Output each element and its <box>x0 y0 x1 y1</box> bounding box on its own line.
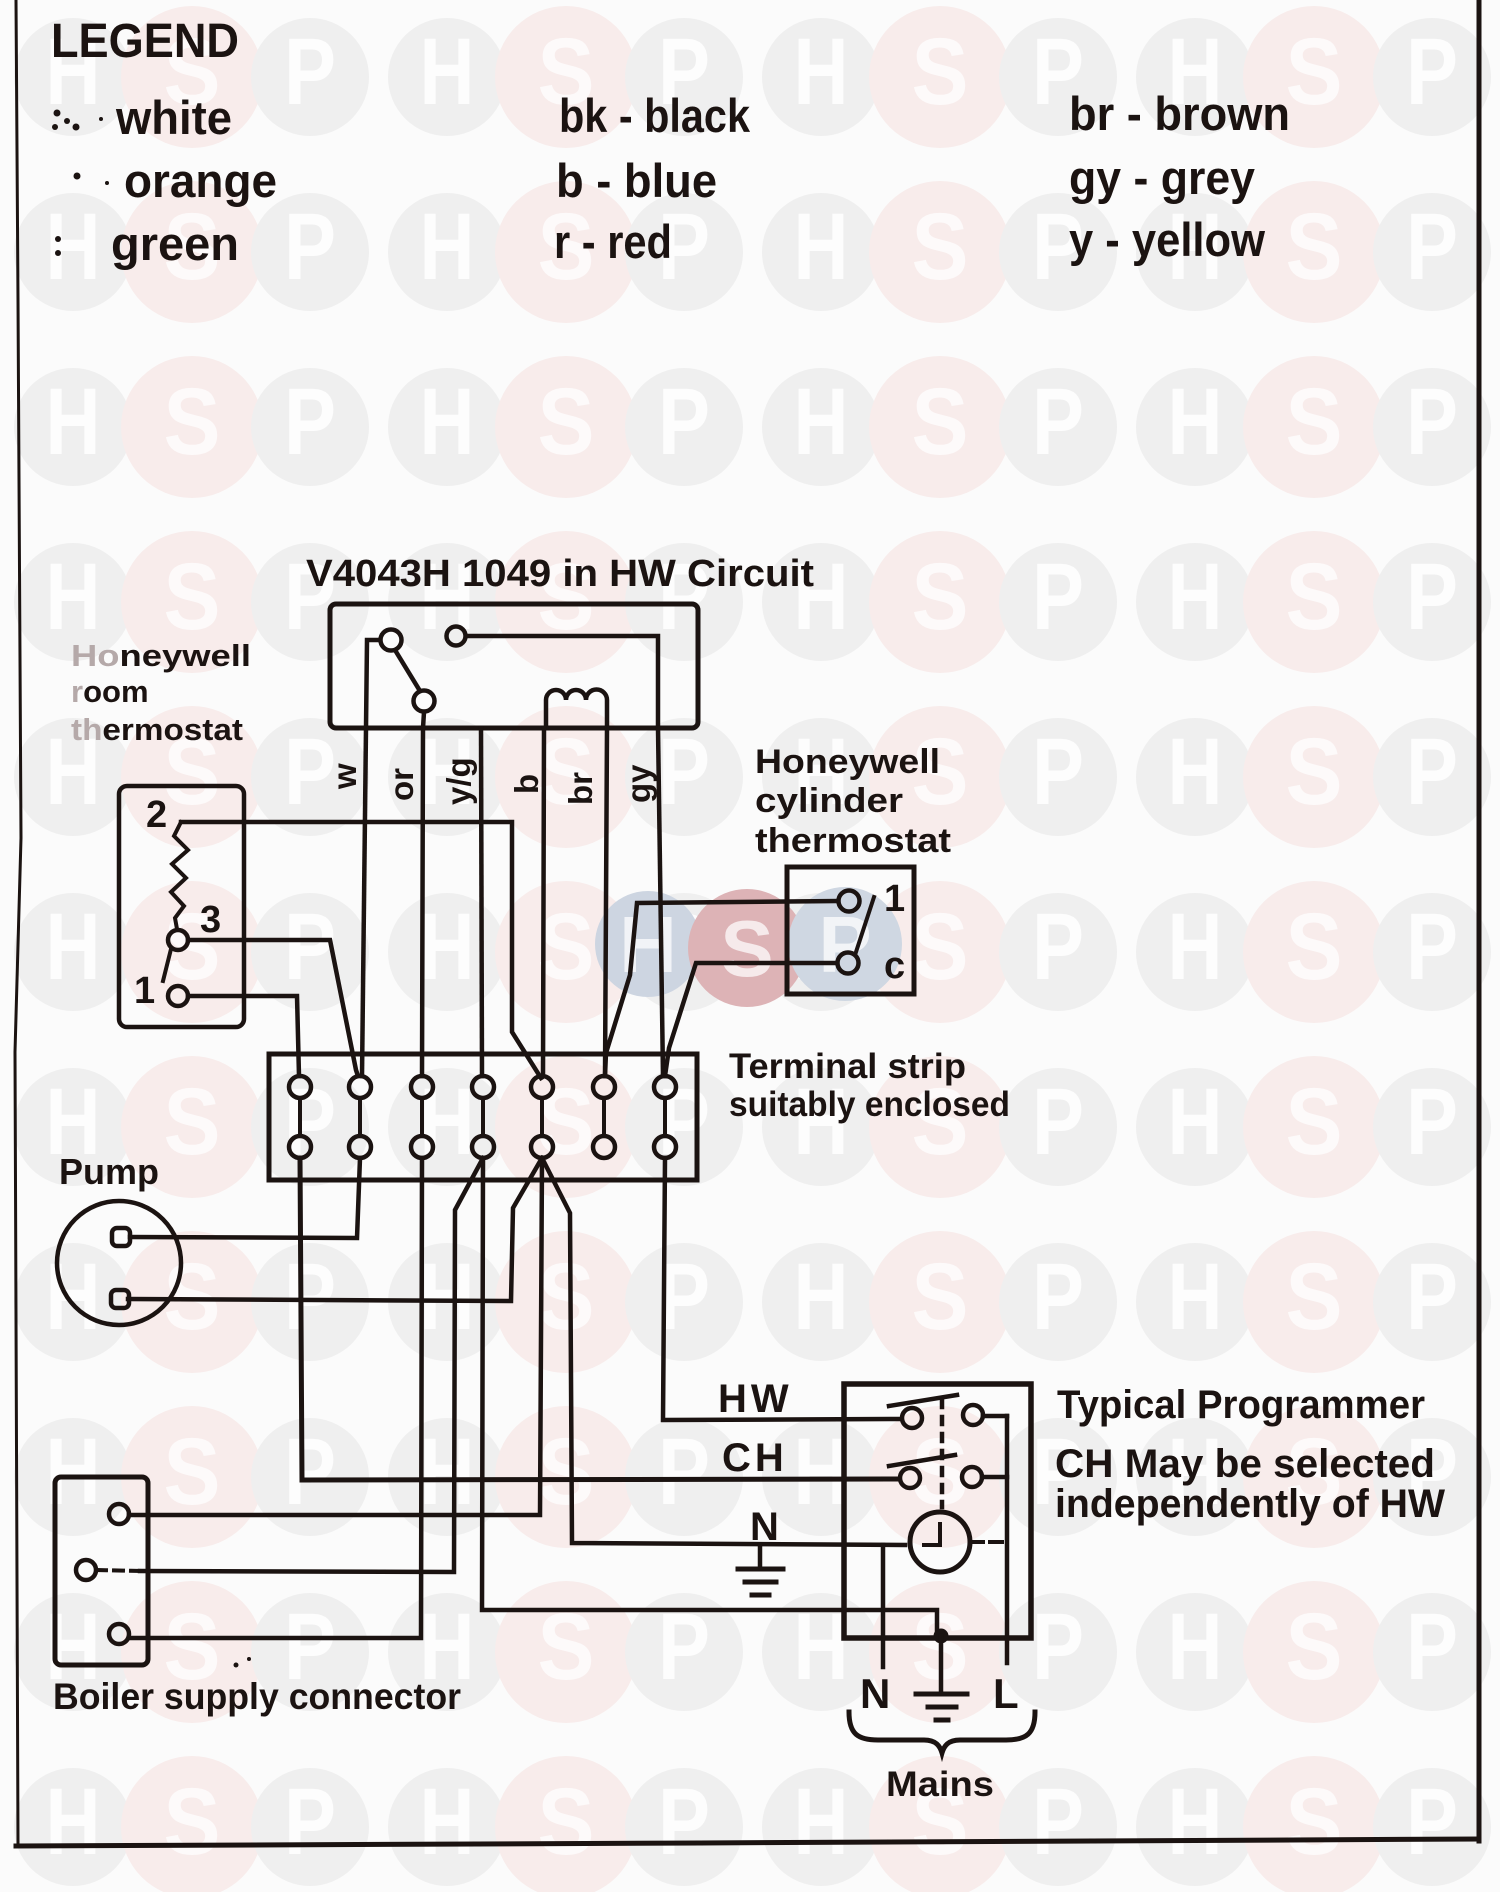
svg-text:P: P <box>1406 19 1458 125</box>
svg-text:S: S <box>1286 1769 1343 1875</box>
svg-text:independently of HW: independently of HW <box>1055 1482 1445 1526</box>
central colored HSP logo watermark <box>595 887 902 1007</box>
svg-text:H: H <box>1168 1594 1223 1700</box>
svg-text:P: P <box>1032 1594 1084 1700</box>
svg-text:H: H <box>420 1244 475 1350</box>
mains brace <box>849 1712 1035 1753</box>
svg-text:P: P <box>658 1769 710 1875</box>
svg-text:P: P <box>1406 1244 1458 1350</box>
svg-text:1: 1 <box>134 970 155 1012</box>
terminal 4 top <box>472 1076 494 1098</box>
svg-text:P: P <box>284 1419 336 1525</box>
svg-text:H: H <box>794 369 849 475</box>
svg-text:2: 2 <box>146 794 167 836</box>
room stat switch arm <box>163 949 171 981</box>
terminal strip box <box>269 1054 697 1180</box>
svg-text:H: H <box>794 19 849 125</box>
svg-text:white: white <box>115 91 232 144</box>
terminal 3 link <box>420 1098 424 1136</box>
svg-text:S: S <box>538 894 595 1000</box>
svg-text:H: H <box>1168 1244 1223 1350</box>
svg-text:Honeywell: Honeywell <box>755 743 940 781</box>
wire terminal 3 to boiler bottom <box>130 1158 422 1638</box>
svg-text:P: P <box>284 19 336 125</box>
wire aux terminal to gy <box>466 636 658 728</box>
svg-text:S: S <box>538 369 595 475</box>
svg-text:P: P <box>1406 1594 1458 1700</box>
svg-text:H: H <box>420 19 475 125</box>
svg-text:CH May be selected: CH May be selected <box>1055 1442 1435 1486</box>
wire terminal 5 to boiler top <box>129 1158 542 1515</box>
pump terminal lower <box>111 1290 129 1308</box>
clock hands <box>924 1524 940 1545</box>
wire pivot to w <box>366 640 380 728</box>
svg-text:Mains: Mains <box>886 1765 994 1804</box>
wire room stat 1 to terminal strip 1 <box>188 996 299 1076</box>
svg-text:Terminal strip: Terminal strip <box>729 1047 966 1086</box>
svg-text:P: P <box>1032 1069 1084 1175</box>
svg-text:b: b <box>508 774 545 794</box>
terminal 3 top <box>411 1076 433 1098</box>
page border left <box>15 0 21 1844</box>
svg-text:r - red: r - red <box>554 215 672 268</box>
svg-text:green: green <box>111 217 239 270</box>
terminal 5 top <box>531 1076 553 1098</box>
svg-text:P: P <box>1406 1769 1458 1875</box>
svg-text:P: P <box>1406 1069 1458 1175</box>
svg-text:LEGEND: LEGEND <box>51 15 239 68</box>
svg-text:H: H <box>794 1244 849 1350</box>
valve switch lever <box>395 650 420 691</box>
svg-text:y - yellow: y - yellow <box>1069 213 1265 266</box>
cylinder thermostat box <box>787 867 914 994</box>
room thermostat box <box>119 786 244 1027</box>
pump body <box>57 1201 181 1325</box>
terminal 1 bottom <box>289 1136 311 1158</box>
svg-text:S: S <box>720 904 773 993</box>
svg-text:P: P <box>1406 369 1458 475</box>
terminal 1 link <box>298 1098 302 1136</box>
svg-text:P: P <box>1032 1769 1084 1875</box>
svg-text:Boiler supply connector: Boiler supply connector <box>53 1676 461 1717</box>
svg-text:S: S <box>912 19 969 125</box>
cyl stat terminal C <box>838 953 859 974</box>
wire lever to or <box>423 712 424 728</box>
svg-text:V4043H 1049 in HW Circuit: V4043H 1049 in HW Circuit <box>306 553 814 595</box>
svg-text:Honeywell: Honeywell <box>71 638 251 673</box>
svg-text:CH: CH <box>722 1436 788 1480</box>
L bus vertical <box>1005 1416 1010 1638</box>
svg-text:thermostat: thermostat <box>755 822 951 860</box>
svg-text:gy - grey: gy - grey <box>1069 151 1255 204</box>
CH switch right contact <box>962 1467 982 1487</box>
svg-text:H: H <box>46 1769 101 1875</box>
page border right <box>1477 0 1482 1841</box>
svg-text:N: N <box>750 1505 779 1549</box>
terminal 6 top <box>593 1076 615 1098</box>
svg-text:P: P <box>658 369 710 475</box>
svg-text:thermostat: thermostat <box>71 712 243 747</box>
svg-text:S: S <box>1286 1244 1343 1350</box>
valve switch pivot terminal <box>381 630 402 651</box>
terminal 1 top <box>289 1076 311 1098</box>
terminal 2 top <box>349 1076 371 1098</box>
terminal 2 link <box>358 1098 362 1136</box>
valve motor coil <box>546 690 607 729</box>
svg-text:H: H <box>46 1244 101 1350</box>
svg-text:N: N <box>860 1670 890 1717</box>
svg-text:H: H <box>46 894 101 1000</box>
room stat terminal 3 <box>168 930 188 950</box>
HW switch left contact <box>902 1408 922 1428</box>
wire gy drop <box>658 728 663 1076</box>
CH switch lever <box>889 1455 955 1466</box>
programmer clock <box>910 1512 970 1572</box>
svg-text:1: 1 <box>884 878 905 920</box>
terminal 4 link <box>481 1098 485 1136</box>
svg-text:H: H <box>1168 1769 1223 1875</box>
svg-text:S: S <box>164 544 221 650</box>
mains earth symbol <box>916 1694 967 1720</box>
svg-text:3: 3 <box>200 899 221 941</box>
speck 2 <box>247 1657 251 1661</box>
svg-text:br - brown: br - brown <box>1069 87 1290 140</box>
cyl stat terminal 1 <box>839 891 860 912</box>
speck 1 <box>234 1663 239 1668</box>
svg-text:S: S <box>1286 369 1343 475</box>
svg-text:S: S <box>1286 894 1343 1000</box>
wire cyl stat C to terminal strip 7 <box>665 963 837 1076</box>
room stat resistor (accelerator) <box>171 822 188 929</box>
wire room stat 2 to terminal strip 5 <box>181 822 541 1078</box>
wire terminal 2 to pump upper <box>130 1158 360 1238</box>
svg-text:y/g: y/g <box>440 757 477 805</box>
CH switch left contact <box>900 1468 920 1488</box>
junction dot mains earth <box>934 1629 949 1644</box>
svg-text:H: H <box>420 194 475 300</box>
wire w drop <box>362 728 366 1076</box>
svg-text:gy: gy <box>620 764 657 803</box>
svg-text:H: H <box>1168 369 1223 475</box>
programmer box <box>844 1384 1031 1638</box>
svg-text:P: P <box>1032 1244 1084 1350</box>
svg-text:P: P <box>1032 719 1084 825</box>
room stat terminal 1 <box>168 986 188 1006</box>
wire HW right to L bus <box>983 1414 1007 1419</box>
svg-text:P: P <box>284 1244 336 1350</box>
svg-text:P: P <box>1406 194 1458 300</box>
svg-text:room: room <box>71 674 149 709</box>
svg-text:w: w <box>326 763 363 790</box>
svg-text:H: H <box>420 894 475 1000</box>
mains N riser <box>881 1545 886 1667</box>
terminal 7 link <box>663 1098 667 1136</box>
legend or dots <box>74 173 110 186</box>
svg-text:H: H <box>1168 719 1223 825</box>
boiler supply connector box <box>55 1477 148 1665</box>
svg-text:S: S <box>912 894 969 1000</box>
svg-text:H: H <box>420 1769 475 1875</box>
svg-text:c: c <box>884 945 905 987</box>
terminal 7 top <box>654 1076 676 1098</box>
boiler terminal top <box>109 1504 129 1524</box>
terminal 5 link <box>540 1098 544 1136</box>
svg-text:H: H <box>1168 894 1223 1000</box>
wire CH right to L bus <box>982 1475 1007 1480</box>
valve lever end terminal <box>414 691 435 712</box>
svg-text:H: H <box>420 1419 475 1525</box>
wire terminal 1 to programmer CH <box>300 1158 899 1480</box>
svg-text:H: H <box>46 194 101 300</box>
terminal 5 bottom <box>531 1136 553 1158</box>
svg-text:br: br <box>562 772 599 805</box>
valve aux terminal <box>447 627 466 646</box>
svg-text:P: P <box>1032 544 1084 650</box>
svg-text:H: H <box>46 544 101 650</box>
svg-text:L: L <box>993 1670 1019 1717</box>
svg-text:or: or <box>383 768 420 801</box>
terminal 3 bottom <box>411 1136 433 1158</box>
svg-text:S: S <box>164 1769 221 1875</box>
svg-text:P: P <box>1406 894 1458 1000</box>
svg-text:S: S <box>538 1769 595 1875</box>
svg-text:H: H <box>1168 544 1223 650</box>
page border bottom <box>16 1839 1479 1846</box>
mains earth riser <box>939 1636 944 1692</box>
svg-text:P: P <box>1032 369 1084 475</box>
svg-text:Pump: Pump <box>59 1151 159 1192</box>
legend g dots <box>55 236 61 256</box>
terminal 7 bottom <box>654 1136 676 1158</box>
wire terminal 7 to programmer HW <box>663 1158 901 1420</box>
svg-text:H: H <box>420 1069 475 1175</box>
svg-text:S: S <box>1286 719 1343 825</box>
svg-text:bk - black: bk - black <box>559 89 751 142</box>
svg-text:suitably enclosed: suitably enclosed <box>729 1085 1010 1124</box>
svg-text:P: P <box>284 369 336 475</box>
svg-text:P: P <box>1406 544 1458 650</box>
svg-text:P: P <box>284 894 336 1000</box>
wire br drop <box>605 728 607 1076</box>
svg-text:HW: HW <box>718 1377 793 1421</box>
wire terminal 4 to mains earth junction <box>482 1158 937 1632</box>
svg-text:H: H <box>794 194 849 300</box>
boiler middle dashed link <box>97 1570 140 1571</box>
svg-text:S: S <box>1286 194 1343 300</box>
svg-text:Typical Programmer: Typical Programmer <box>1057 1383 1425 1427</box>
wire b drop <box>543 728 544 1076</box>
earth stub in programmer <box>758 1545 763 1567</box>
svg-text:S: S <box>912 369 969 475</box>
wire terminal 4 to boiler middle <box>140 1158 483 1572</box>
svg-text:H: H <box>46 369 101 475</box>
boiler terminal bottom <box>109 1624 129 1644</box>
terminal 6 link <box>602 1098 606 1136</box>
wire terminal 5 to programmer N <box>542 1158 905 1545</box>
svg-text:S: S <box>912 544 969 650</box>
svg-text:cylinder: cylinder <box>755 782 903 820</box>
svg-text:S: S <box>1286 1594 1343 1700</box>
svg-text:S: S <box>164 1069 221 1175</box>
wire clock to L bus <box>971 1540 1007 1544</box>
wire y/g drop <box>481 728 482 1076</box>
svg-text:S: S <box>538 1419 595 1525</box>
svg-text:S: S <box>1286 544 1343 650</box>
svg-text:H: H <box>420 369 475 475</box>
wire terminal 5 to pump lower <box>128 1158 542 1301</box>
wire room stat 3 to terminal strip 2 <box>188 940 358 1076</box>
svg-text:orange: orange <box>124 154 277 207</box>
svg-text:P: P <box>1032 894 1084 1000</box>
terminal 6 bottom <box>593 1136 615 1158</box>
svg-text:P: P <box>818 900 871 989</box>
pump terminal upper <box>112 1228 130 1246</box>
terminal 4 bottom <box>472 1136 494 1158</box>
terminal 2 bottom <box>349 1136 371 1158</box>
svg-text:H: H <box>1168 1069 1223 1175</box>
boiler terminal middle <box>76 1560 96 1580</box>
svg-text:H: H <box>794 1769 849 1875</box>
svg-text:S: S <box>912 194 969 300</box>
HW switch lever <box>889 1395 957 1406</box>
switch mechanical link dashed <box>940 1400 945 1507</box>
svg-text:S: S <box>912 1244 969 1350</box>
svg-text:S: S <box>164 1419 221 1525</box>
wire or drop <box>422 728 423 1076</box>
motorised valve V4043H box <box>330 604 698 728</box>
svg-text:S: S <box>538 1244 595 1350</box>
svg-text:P: P <box>1406 719 1458 825</box>
svg-text:P: P <box>284 1769 336 1875</box>
svg-text:S: S <box>164 369 221 475</box>
svg-text:H: H <box>794 1419 849 1525</box>
svg-text:S: S <box>1286 19 1343 125</box>
svg-text:P: P <box>284 194 336 300</box>
mains L riser <box>1005 1638 1010 1663</box>
svg-text:S: S <box>1286 1069 1343 1175</box>
cyl stat switch arm <box>856 897 874 952</box>
legend w dots <box>52 110 103 131</box>
svg-text:P: P <box>658 719 710 825</box>
HW switch right contact <box>963 1405 983 1425</box>
svg-text:P: P <box>658 1419 710 1525</box>
svg-text:b - blue: b - blue <box>556 154 717 207</box>
wire cyl stat 1 to terminal strip 6 <box>605 901 838 1076</box>
earth symbol in programmer <box>738 1569 783 1595</box>
